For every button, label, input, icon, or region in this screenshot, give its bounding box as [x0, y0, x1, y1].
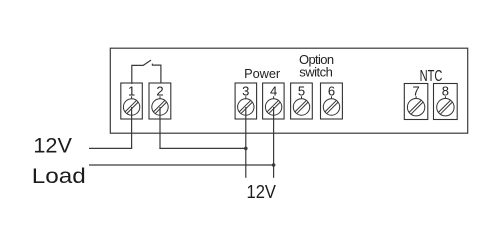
svg-text:3: 3 [242, 84, 249, 99]
terminal 2 [149, 83, 171, 119]
junction dot: terminal 2 wire joins terminal 3 lead [244, 147, 248, 151]
terminal 5 [291, 83, 313, 119]
svg-text:switch: switch [299, 65, 333, 80]
svg-text:6: 6 [328, 84, 335, 99]
svg-text:NTC: NTC [420, 68, 443, 85]
svg-text:Power: Power [244, 66, 281, 81]
svg-text:7: 7 [412, 84, 419, 99]
svg-text:8: 8 [442, 84, 449, 99]
terminal 4 [263, 83, 285, 119]
wire: terminal 4 down lead [273, 107, 275, 178]
svg-text:1: 1 [128, 84, 135, 99]
wire: Load horizontal run [89, 164, 274, 166]
relay switch SW (contact between terminals 1 and 2) [132, 60, 161, 83]
terminal 1 [121, 83, 143, 119]
junction dot: Load wire joins terminal 4 lead [272, 163, 276, 167]
terminal 6 [321, 83, 343, 119]
wire: terminal 2 down lead [159, 107, 161, 149]
device outline [110, 48, 467, 133]
svg-text:12V: 12V [247, 181, 277, 202]
wire: 12V supply horizontal to terminal 1 [89, 147, 132, 149]
terminal 3 [235, 83, 257, 119]
terminal 8 [434, 84, 458, 120]
svg-text:12V: 12V [33, 133, 72, 157]
svg-text:Load: Load [32, 164, 86, 188]
wire: terminal 3 down lead [245, 107, 247, 178]
terminal 7 [404, 84, 428, 120]
svg-text:5: 5 [298, 84, 305, 99]
svg-text:2: 2 [156, 84, 163, 99]
wire: terminal 2 to terminal 3 vertical horizontal run [159, 147, 245, 149]
wire: terminal 1 down lead [131, 107, 133, 148]
svg-text:4: 4 [270, 84, 277, 99]
